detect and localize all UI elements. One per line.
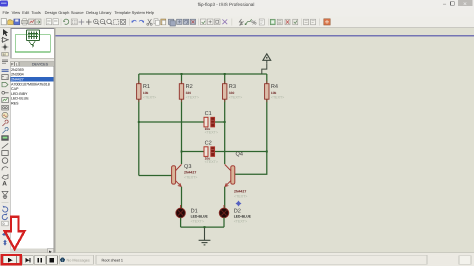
preview pane [11, 29, 58, 59]
tool device pin [2, 91, 9, 94]
icon grid [71, 19, 77, 25]
icon make-device [207, 19, 213, 25]
tool angle box [2, 221, 8, 226]
svg-text:Q3: Q3 [184, 164, 191, 170]
svg-text:C2: C2 [205, 141, 212, 147]
svg-text:DEVICES: DEVICES [32, 62, 49, 66]
svg-text:A: A [2, 181, 7, 188]
tool bus [2, 70, 9, 72]
icon new [1, 19, 6, 25]
wire C2 row [182, 151, 267, 153]
origin marker Q4 [236, 201, 242, 207]
svg-text:View: View [12, 10, 21, 15]
icon packaging [214, 19, 220, 25]
wire D1 to ground rail [180, 217, 182, 227]
icon origin [79, 19, 85, 25]
transistor Q3 [172, 164, 198, 187]
tool voltage probe [2, 120, 8, 126]
icon undo [131, 20, 136, 22]
icon block-delete [190, 19, 195, 24]
red highlight arrow [5, 217, 25, 250]
svg-text:LED-BIBY: LED-BIBY [11, 92, 28, 96]
DEVICES header [19, 62, 57, 67]
left panel background [0, 28, 56, 253]
svg-text:%: % [251, 19, 256, 26]
icon cursor-plus [86, 19, 92, 25]
svg-text:<TEXT>: <TEXT> [186, 96, 199, 100]
capacitor C2 [204, 141, 218, 165]
svg-text:D1: D1 [191, 208, 198, 214]
svg-text:R1: R1 [143, 84, 150, 90]
tool mirror x [2, 233, 8, 237]
tool subcircuit [2, 75, 8, 80]
status bar [0, 253, 474, 266]
svg-text:LED-BLUE: LED-BLUE [191, 215, 209, 219]
wire D2 to ground rail [223, 217, 225, 227]
svg-text:330: 330 [229, 91, 235, 95]
junction C2-R4 [266, 151, 268, 153]
tool rotate acw [3, 206, 8, 212]
svg-text:2N4427: 2N4427 [184, 170, 196, 174]
svg-text:R4: R4 [271, 84, 278, 90]
svg-text:R3: R3 [229, 84, 236, 90]
svg-text:Edit: Edit [22, 10, 30, 15]
svg-text:10k: 10k [143, 91, 149, 95]
junction C1-R3 [224, 121, 226, 123]
icon save [14, 19, 20, 25]
tool 2d box [2, 151, 8, 156]
wire bottom rail [181, 226, 224, 228]
ground [199, 227, 211, 245]
pause button [34, 256, 45, 264]
separator [301, 19, 303, 26]
resistor R2 [179, 74, 199, 164]
svg-text:System: System [132, 10, 146, 15]
capacitor C1 [204, 111, 218, 135]
junction rail-R2 [181, 73, 183, 75]
red highlight rectangle [2, 255, 21, 264]
resistor R3 [223, 74, 243, 164]
resistor R4 [265, 74, 285, 152]
wire Q4 emitter to D2 [224, 187, 226, 208]
svg-text:<TEXT>: <TEXT> [184, 175, 197, 179]
junction rail-R3 [224, 73, 226, 75]
icon export [35, 19, 41, 25]
svg-text:Tools: Tools [31, 10, 40, 15]
svg-text:<TEXT>: <TEXT> [205, 131, 218, 135]
svg-text:<TEXT>: <TEXT> [271, 96, 284, 100]
left toolbar icons [1, 29, 9, 246]
icon block-move [177, 19, 182, 24]
menu bar [0, 9, 474, 17]
icon zoom-all [107, 19, 112, 24]
tool tape recorder [2, 105, 9, 110]
devices list [10, 66, 54, 248]
tool selection arrow [3, 29, 8, 36]
play button [3, 256, 17, 264]
icon paste [161, 19, 166, 25]
icon design-notes [259, 19, 264, 25]
svg-text:<TEXT>: <TEXT> [229, 96, 242, 100]
icon autorouter [245, 19, 252, 25]
toolbar [0, 17, 474, 28]
tool mirror y [3, 240, 7, 246]
transistor Q4 [225, 151, 248, 198]
tool text script [2, 60, 8, 63]
tool 2d text [2, 181, 7, 188]
svg-text:RES: RES [11, 101, 19, 105]
panel/canvas divider [54, 28, 56, 253]
tool 2d path [2, 175, 8, 180]
icon print [22, 19, 28, 25]
svg-text:Source: Source [71, 10, 84, 15]
separator [60, 19, 62, 26]
svg-text:LED-BLUE: LED-BLUE [11, 97, 29, 101]
icon cut [147, 19, 152, 25]
LED D1 [176, 205, 209, 223]
icon sheet1 [46, 19, 51, 25]
tool junction dot [2, 44, 9, 51]
P L buttons [10, 62, 14, 67]
svg-text:<TEXT>: <TEXT> [234, 219, 247, 223]
icon template2 [311, 19, 316, 25]
svg-text:330: 330 [186, 91, 192, 95]
svg-text:Graph: Graph [58, 10, 69, 15]
icon decompose [222, 19, 227, 24]
tool 2d circle [2, 158, 8, 164]
preview circuit thumbnail [27, 30, 40, 47]
icon lib-delete [285, 19, 290, 25]
svg-text:File: File [3, 10, 10, 15]
svg-text:2N3904: 2N3904 [11, 73, 24, 77]
svg-text:No Messages: No Messages [67, 258, 90, 262]
tool 2d line [2, 143, 8, 148]
svg-text:Q4: Q4 [236, 151, 243, 157]
separator [268, 19, 270, 26]
svg-text:<TEXT>: <TEXT> [143, 96, 156, 100]
wire Q3 base from R1 [139, 175, 172, 177]
icon pick [200, 19, 206, 25]
svg-text:D2: D2 [234, 208, 241, 214]
icon template1 [304, 19, 309, 25]
junction R1-C1 [138, 121, 140, 123]
icon pick-library [270, 19, 275, 25]
svg-text:<TEXT>: <TEXT> [191, 219, 204, 223]
svg-text:LED-BLUE: LED-BLUE [234, 215, 252, 219]
icon make-library [277, 19, 282, 25]
svg-text:A700D107M006ATE018: A700D107M006ATE018 [11, 82, 50, 86]
svg-text:10k: 10k [271, 91, 277, 95]
svg-text:Design: Design [45, 10, 57, 15]
tool graph [2, 98, 9, 103]
tool terminal [2, 82, 8, 86]
svg-text:<TEXT>: <TEXT> [234, 194, 247, 198]
separator [231, 19, 233, 26]
junction R2-C2 [181, 151, 183, 153]
wire Q4 base from R4 [234, 152, 267, 175]
title bar [0, 0, 474, 9]
preview sheet rect [15, 35, 50, 52]
resistor R1 [137, 74, 157, 176]
tool instruments [2, 136, 9, 141]
app icon [0, 1, 8, 7]
icon block-copy [168, 19, 175, 26]
icon redo [139, 20, 144, 22]
resize grip [459, 256, 471, 264]
tool 2d marker [3, 195, 7, 199]
tool generator [2, 112, 8, 118]
svg-text:flip-flop3 - ISIS Professional: flip-flop3 - ISIS Professional [198, 2, 255, 7]
canvas [55, 28, 474, 253]
separator [128, 19, 130, 26]
icon sheet2 [53, 19, 58, 25]
svg-text:R2: R2 [186, 84, 193, 90]
separator [2, 202, 9, 204]
svg-text:CAP: CAP [11, 87, 19, 91]
icon lib-verify [293, 19, 298, 25]
svg-text:L: L [16, 62, 18, 66]
separator [198, 19, 200, 26]
icon zoom-in [94, 19, 99, 24]
devices list h-scrollbar [10, 249, 54, 255]
svg-text:2N4427: 2N4427 [234, 189, 246, 193]
power terminal VCC [262, 54, 271, 74]
icon ares [324, 19, 330, 25]
LED D2 [219, 205, 251, 223]
svg-text:<TEXT>: <TEXT> [205, 160, 218, 164]
icon open [8, 20, 14, 25]
separator [43, 19, 45, 26]
svg-text:lbl: lbl [3, 53, 6, 57]
svg-text:✕: ✕ [463, 1, 467, 7]
icon copy [154, 19, 159, 25]
svg-text:Debug: Debug [86, 10, 98, 15]
svg-text:0: 0 [3, 222, 5, 226]
icon zoom-out [100, 19, 105, 24]
tool 2d arc [2, 167, 8, 171]
stop button [46, 256, 57, 264]
wire C1 row [139, 121, 225, 123]
wire VCC top rail [139, 73, 267, 75]
svg-text:Template: Template [114, 10, 131, 15]
svg-text:2N2369: 2N2369 [11, 68, 24, 72]
svg-text:Help: Help [146, 10, 155, 15]
svg-text:Library: Library [99, 10, 111, 15]
icon wire-auto [239, 19, 243, 25]
icon block-rotate [183, 19, 188, 24]
tool component [1, 37, 9, 42]
message panel [60, 255, 94, 264]
tool current probe [2, 127, 8, 133]
tool 2d symbol [2, 191, 8, 195]
sheet border line [55, 35, 474, 37]
svg-text:C1: C1 [205, 111, 212, 117]
icon marker [29, 19, 35, 25]
wire Q3 emitter to D1 [181, 187, 183, 208]
junction rail-ground [204, 226, 206, 228]
tool wire label [2, 52, 8, 56]
icon property-assign [251, 19, 256, 26]
separator [319, 19, 321, 26]
sheet panel [96, 255, 427, 264]
svg-text:2N4427: 2N4427 [11, 78, 24, 82]
tool rotate cw [2, 213, 7, 219]
svg-text:Root sheet 1: Root sheet 1 [102, 258, 124, 262]
icon zoom-area [114, 19, 119, 24]
icon refresh [63, 19, 69, 24]
icon zoom-sheet [120, 19, 125, 24]
step button [22, 256, 33, 264]
